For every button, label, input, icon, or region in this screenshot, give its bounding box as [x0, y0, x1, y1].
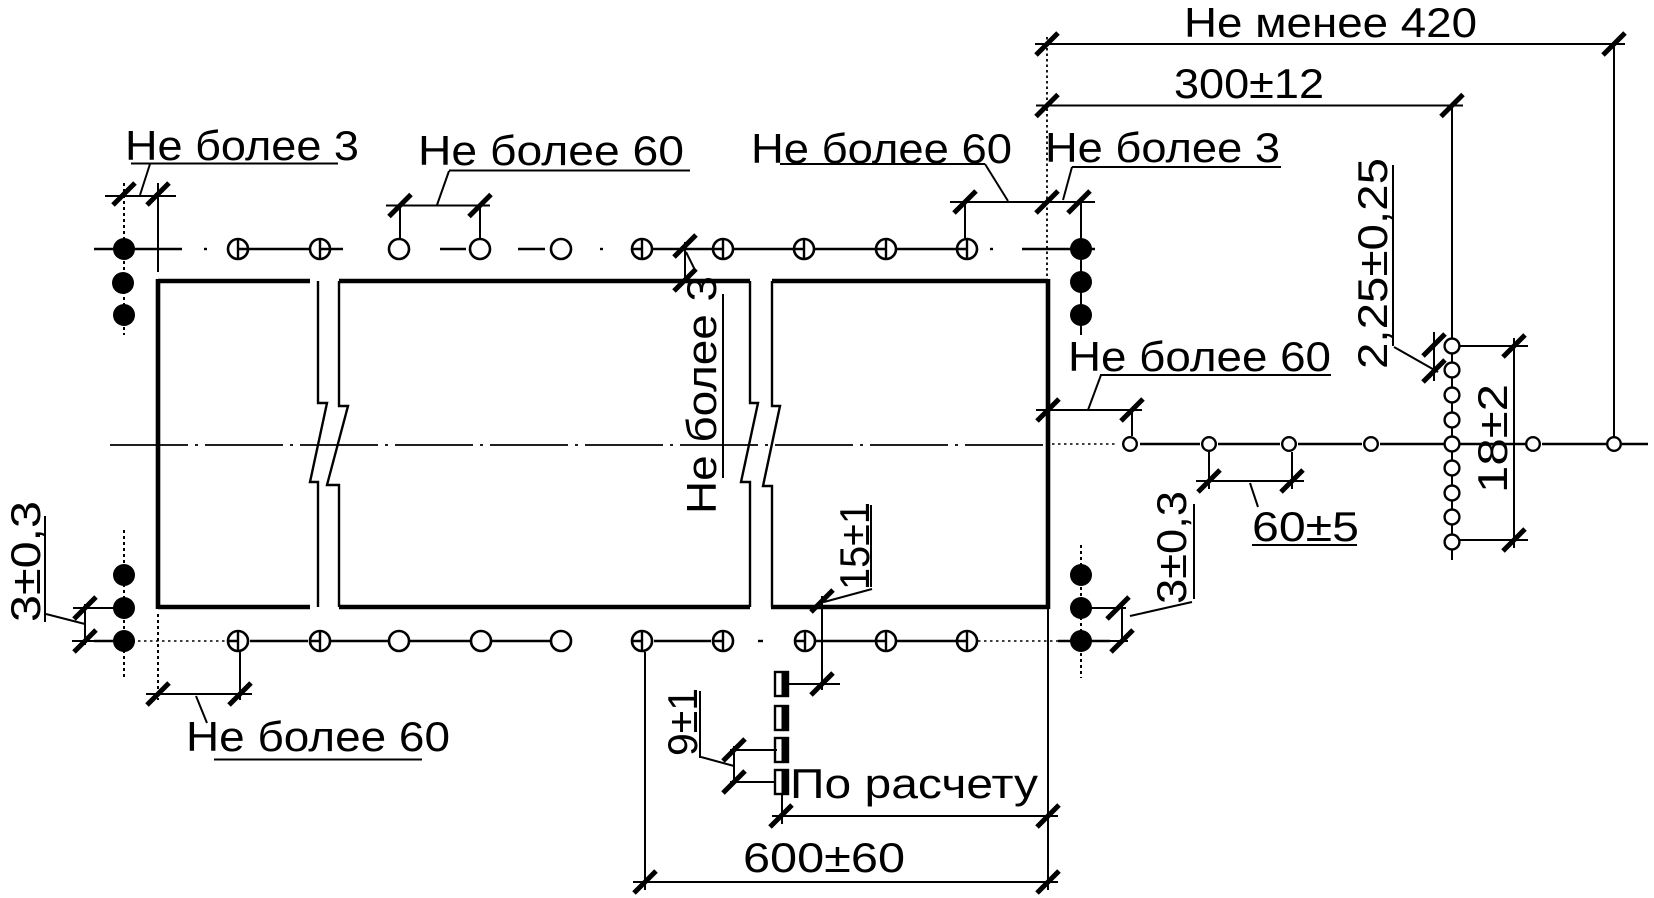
svg-text:Не более 60: Не более 60 [1068, 333, 1331, 380]
svg-text:Не более 60: Не более 60 [751, 125, 1012, 172]
svg-text:3±0,3: 3±0,3 [2, 501, 49, 622]
svg-text:Не более 60: Не более 60 [418, 127, 684, 174]
svg-text:60±5: 60±5 [1252, 503, 1359, 550]
svg-text:600±60: 600±60 [743, 834, 905, 881]
svg-text:3±0,3: 3±0,3 [1148, 491, 1195, 604]
svg-text:300±12: 300±12 [1174, 60, 1324, 107]
svg-text:По расчету: По расчету [790, 760, 1038, 807]
svg-text:Не более 3: Не более 3 [678, 276, 725, 514]
svg-text:18±2: 18±2 [1469, 384, 1516, 493]
svg-text:15±1: 15±1 [831, 502, 878, 590]
svg-text:9±1: 9±1 [659, 688, 706, 756]
svg-text:2,25±0,25: 2,25±0,25 [1349, 158, 1396, 369]
svg-text:Не менее 420: Не менее 420 [1184, 0, 1477, 46]
svg-text:Не более 3: Не более 3 [125, 122, 359, 169]
svg-text:Не более 3: Не более 3 [1045, 124, 1280, 171]
svg-text:Не более 60: Не более 60 [186, 713, 450, 760]
